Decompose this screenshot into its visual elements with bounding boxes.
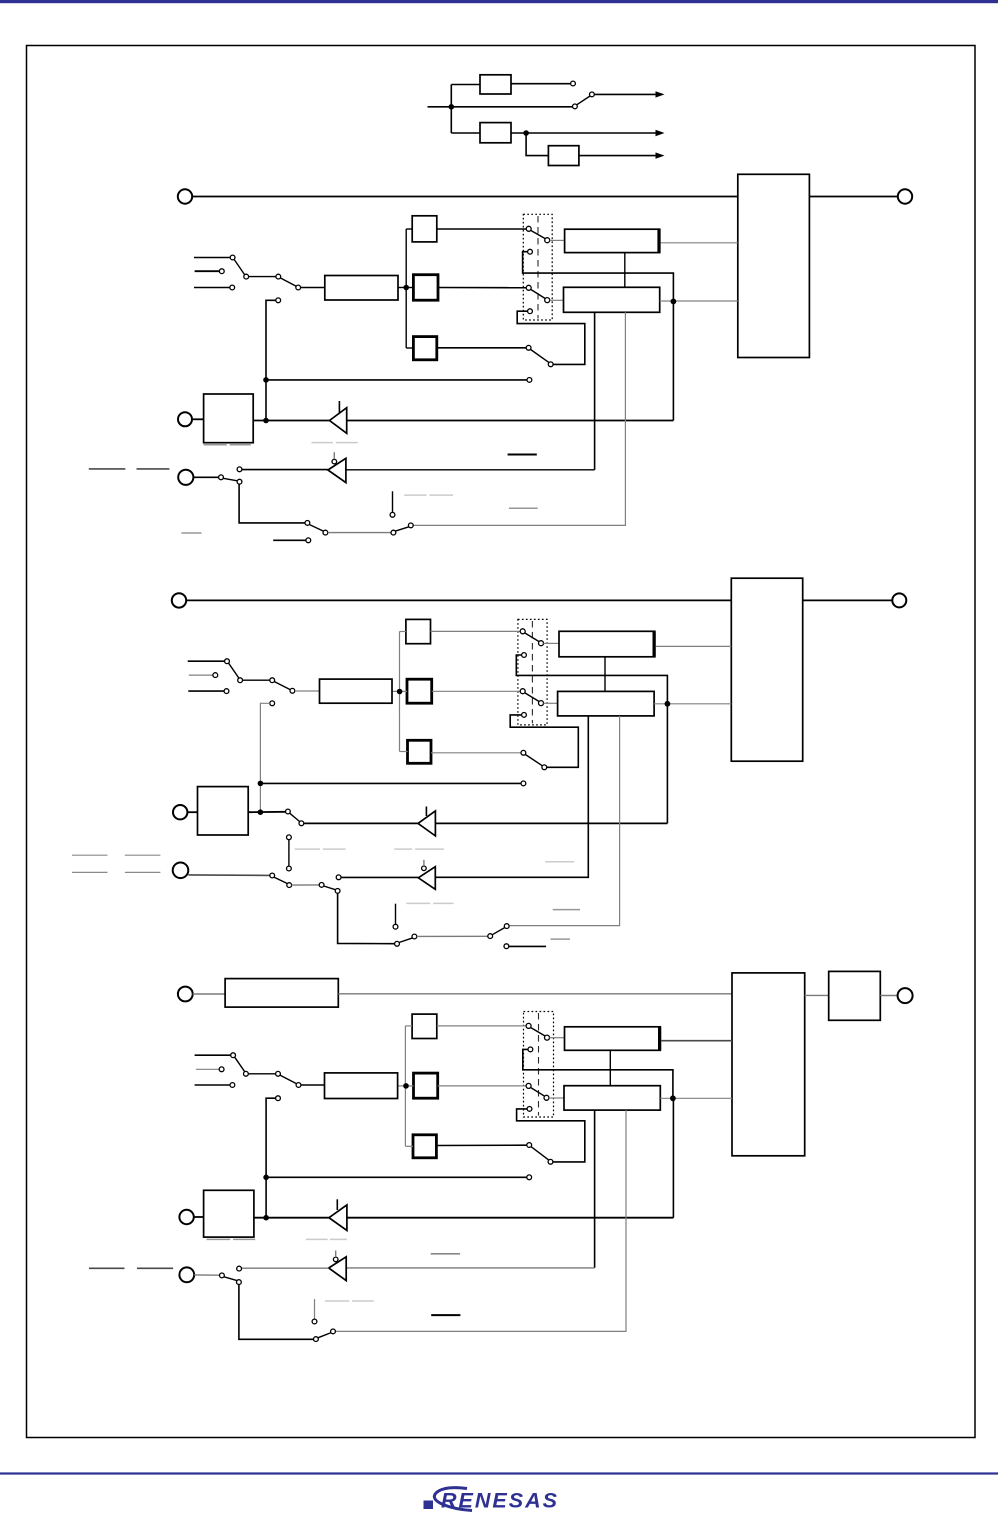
- label dash light: [406, 902, 430, 904]
- wire: throw drop to analog row: [239, 1285, 314, 1340]
- wire: [243, 679, 270, 681]
- wire: box B bottom to input buffer row: [594, 312, 596, 470]
- switch arm: [224, 1277, 237, 1281]
- junction dot: [523, 130, 529, 136]
- box: series resistor: [225, 979, 338, 1008]
- wire: throw drop to analog row: [239, 484, 305, 523]
- wire: R2 to selector: [438, 1085, 527, 1087]
- switch circle: [391, 530, 396, 535]
- wire: open contact row: [266, 1176, 527, 1178]
- switch arm: [525, 755, 542, 766]
- wire: box A bottom feed: [609, 1050, 611, 1085]
- header blue bar: [0, 0, 998, 3]
- label dash group left r2: [72, 871, 108, 873]
- wire: R3 to switch: [431, 752, 521, 754]
- port pad circle P2: [173, 805, 187, 819]
- wire: select stub 3: [188, 690, 224, 692]
- enable stub: [338, 401, 340, 413]
- wire: pad to latch: [194, 1216, 204, 1218]
- wire: low throw Z-link: [517, 311, 585, 364]
- wire: vertical link: [288, 840, 290, 866]
- box: pull-up R1: [412, 216, 437, 242]
- big box: port logic: [732, 973, 805, 1156]
- switch circle (stub end): [306, 538, 311, 543]
- wire: vertical distribution: [450, 85, 452, 134]
- label dash light: [352, 1300, 374, 1302]
- junction dot: [263, 1215, 269, 1221]
- junction dot: [263, 1175, 269, 1181]
- port pad circle right: [898, 189, 912, 203]
- svg-text:RENESAS: RENESAS: [441, 1489, 559, 1513]
- wire: throw L-link: [523, 1049, 673, 1098]
- switch circle (pole): [520, 689, 525, 694]
- wire: stub to R1: [406, 228, 412, 230]
- wire: box A output: [661, 1040, 732, 1042]
- wire: column connector: [405, 229, 407, 348]
- wire: long box output: [398, 1085, 414, 1087]
- wire: middle branch: [451, 106, 572, 108]
- wire: R1 to selector: [431, 630, 521, 632]
- dashed divider: [531, 621, 533, 723]
- label dash dark: [137, 1267, 173, 1269]
- switch arm: [531, 1088, 545, 1097]
- box: port latch: [204, 394, 254, 443]
- switch arm: [234, 260, 244, 275]
- switch circle: [270, 678, 275, 683]
- switch circle (pole): [526, 226, 531, 231]
- wire: R1 to selector: [437, 1025, 526, 1027]
- switch circle: [395, 941, 400, 946]
- inverter bubble: [333, 1257, 338, 1262]
- long box: function selector: [325, 276, 398, 301]
- wire: R3 to switch: [436, 1144, 526, 1146]
- box A thick right border: [658, 1027, 661, 1051]
- box T3: [548, 146, 579, 166]
- label dash: [125, 854, 160, 856]
- wire: throw L-link: [523, 252, 674, 302]
- label dash group left r1: [72, 854, 108, 856]
- dotted selector box: [524, 1012, 554, 1118]
- junction dot: [397, 689, 403, 695]
- wire: box B output: [660, 300, 738, 302]
- switch circle: [331, 1329, 336, 1334]
- switch arm: [531, 1028, 545, 1036]
- label dash light: [323, 848, 346, 850]
- arrowhead 2: [656, 130, 665, 136]
- box: register R3: [413, 1135, 436, 1158]
- switch circle: [276, 1071, 281, 1076]
- wire: branch to T3: [526, 133, 548, 156]
- wire: pin line: [253, 420, 673, 422]
- wire: stub to R1: [400, 631, 406, 633]
- wire: box A bottom feed: [624, 253, 626, 288]
- wire: port line: [338, 993, 732, 995]
- label dash: [125, 871, 160, 873]
- footer blue rule: [0, 1472, 998, 1474]
- switch circle (pole): [526, 1083, 531, 1088]
- wire: T2 output: [511, 132, 658, 134]
- junction dot: [258, 781, 264, 787]
- switch circle: [230, 1083, 235, 1088]
- switch circle (stub end): [393, 924, 398, 929]
- label dash: [509, 507, 538, 509]
- switch circle (stub end): [504, 944, 509, 949]
- box: pull-up R1: [406, 619, 431, 643]
- switch circle: [238, 678, 243, 683]
- wire: pin line: [254, 1217, 674, 1219]
- wire: pivot to box B: [544, 702, 558, 704]
- wire: buffer output to open contact: [242, 1267, 329, 1269]
- wire: drop to analog row: [338, 893, 395, 943]
- label dash: [233, 1238, 255, 1240]
- switch contact circle (T1 throw): [571, 81, 576, 86]
- wire: select stub 1: [195, 1054, 231, 1056]
- port pad circle P3: [179, 1267, 194, 1282]
- box A thick right border: [657, 229, 660, 252]
- switch arm: [290, 813, 300, 821]
- switch pivot circle: [545, 238, 550, 243]
- wire: lower branch: [451, 132, 480, 134]
- label dash: [230, 444, 251, 446]
- wire: T3 output: [579, 155, 658, 157]
- wire: pad to latch: [192, 418, 204, 420]
- switch circle: [319, 883, 324, 888]
- switch circle: [305, 521, 310, 526]
- switch circle (throw 2): [522, 653, 527, 658]
- long box: function selector: [320, 679, 393, 703]
- wire: pad to series resistor: [193, 993, 225, 995]
- label dash under latch: [204, 444, 227, 446]
- wire: [292, 884, 320, 886]
- wire: vertical stub: [395, 904, 397, 925]
- switch circle (stub end): [312, 1319, 317, 1324]
- label dash under latch: [207, 1238, 231, 1240]
- junction dot: [263, 377, 269, 383]
- wire: column connector: [404, 1026, 406, 1146]
- wire: box B bottom gray drop: [413, 312, 625, 525]
- label dash: [137, 468, 170, 470]
- wire: port line: [186, 599, 731, 601]
- switch circle: [244, 274, 249, 279]
- wire: filter to pad: [880, 995, 897, 997]
- switch circle: [231, 1053, 236, 1058]
- switch pivot circle: [539, 641, 544, 646]
- switch arm: [395, 527, 409, 531]
- wire: T1 output: [511, 83, 570, 85]
- switch arm: [235, 1057, 245, 1072]
- port pad circle P1: [178, 189, 192, 203]
- port pad circle P1: [172, 593, 186, 607]
- switch pivot circle: [545, 1035, 550, 1040]
- dotted selector box: [518, 619, 547, 725]
- switch circle: [296, 285, 301, 290]
- switch arm: [223, 478, 237, 481]
- switch circle: [488, 934, 493, 939]
- Renesas logo mark: [424, 1501, 434, 1510]
- Renesas logo: [424, 1488, 559, 1513]
- box: output filter: [829, 971, 881, 1020]
- wire: box A output: [661, 242, 738, 244]
- big box: port logic: [738, 174, 810, 357]
- label dash group left: [89, 468, 126, 470]
- wire: pad stub: [193, 476, 218, 478]
- switch circle (throw): [548, 362, 553, 367]
- box T2: [480, 123, 511, 143]
- wire: long box output: [398, 287, 413, 289]
- arrowhead 3: [656, 152, 665, 158]
- switch circle: [244, 1071, 249, 1076]
- wire: stub to R3: [406, 347, 413, 349]
- switch circle (open contact): [527, 378, 532, 383]
- wire: select stub 1: [194, 257, 230, 259]
- wire: pin line riser: [666, 704, 668, 823]
- junction dot: [665, 701, 671, 707]
- box B: output register: [564, 287, 660, 312]
- switch circle (pole): [526, 1023, 531, 1028]
- switch circle (throw 2 low): [527, 1107, 532, 1112]
- wire: select stub 1: [188, 660, 225, 662]
- wire: buffer output to open contact: [242, 469, 328, 471]
- port pad circle right: [898, 988, 913, 1003]
- wire: box B bottom to input buffer row: [435, 716, 588, 877]
- wire: big box to right pad: [809, 196, 897, 198]
- switch circle (pole): [220, 1273, 225, 1278]
- wire: pivot to box A: [550, 239, 565, 241]
- switch circle (mode tap): [270, 701, 275, 706]
- switch arm: [229, 663, 239, 678]
- port pad circle P1: [178, 987, 193, 1002]
- wire: open contact row: [266, 379, 527, 381]
- switch circle: [323, 530, 328, 535]
- wire: buffer output to open contact: [341, 876, 418, 878]
- switch arm: [577, 96, 590, 105]
- switch pivot circle: [590, 92, 595, 97]
- box: register R2: [407, 679, 432, 703]
- switch circle (vertical link bottom): [287, 866, 292, 871]
- switch circle (throw): [542, 765, 547, 770]
- box: register R2: [413, 275, 438, 301]
- switch circle (pole): [521, 750, 526, 755]
- wire: stub to R1: [405, 1025, 412, 1027]
- switch circle: [219, 1067, 224, 1072]
- junction dot: [263, 418, 269, 424]
- wire: big box to right pad: [803, 599, 893, 601]
- box: pull-up R1: [412, 1014, 437, 1038]
- label dash light: [430, 494, 454, 496]
- label dash light: [336, 442, 358, 444]
- port pad circle P2: [178, 412, 192, 426]
- wire: [248, 1073, 275, 1075]
- switch circle (throw 2): [528, 249, 533, 254]
- switch circle (open contact): [237, 467, 242, 472]
- wire: latch output: [248, 811, 285, 813]
- switch circle: [219, 269, 224, 274]
- wire: box A bottom feed: [604, 657, 606, 692]
- switch arm: [531, 350, 549, 363]
- wire: to long box: [295, 690, 320, 692]
- wire: to long box: [301, 1084, 325, 1086]
- label dash light: [404, 494, 426, 496]
- dotted selector box: [523, 214, 552, 320]
- switch circle: [276, 274, 281, 279]
- box: register R3: [413, 337, 436, 360]
- switch contact circle (pole): [573, 104, 578, 109]
- wire: open contact row: [260, 782, 521, 784]
- box: port latch: [204, 1190, 254, 1237]
- label dash dark: [89, 1267, 125, 1269]
- port pad circle P3: [178, 470, 193, 485]
- label dash light: [325, 1300, 349, 1302]
- Renesas logo swoosh: [434, 1488, 472, 1511]
- switch circle (open contact): [237, 1266, 242, 1271]
- switch circle (pole): [527, 1143, 532, 1148]
- wire: pivot to box A: [544, 642, 560, 644]
- dashed divider: [538, 1013, 540, 1116]
- wire: vertical stub: [314, 1299, 316, 1319]
- wire: spare stub: [509, 945, 546, 947]
- wire: pad stub: [188, 874, 269, 877]
- wire: pad stub: [194, 1274, 219, 1276]
- input buffer triangle U1: [329, 1205, 347, 1231]
- switch circle (open contact): [521, 781, 526, 786]
- wire: box B bottom to input buffer row: [594, 1110, 596, 1268]
- switch pivot circle: [545, 298, 550, 303]
- switch arm: [281, 278, 297, 286]
- switch arm: [525, 633, 539, 642]
- enable stub: [335, 1251, 337, 1258]
- switch circle (throw 2 low): [522, 713, 527, 718]
- switch circle (throw): [237, 479, 242, 484]
- enable stub: [425, 807, 427, 817]
- wire: low throw Z-link: [510, 715, 578, 767]
- box: register R3: [408, 740, 432, 763]
- wire: low throw Z-link: [517, 1109, 585, 1162]
- wire: big box to filter: [805, 994, 829, 996]
- label dash light: [295, 848, 320, 850]
- switch circle (pole): [526, 345, 531, 350]
- label dash light: [394, 848, 412, 850]
- input buffer triangle U2: [329, 1257, 347, 1281]
- port pad circle P2: [179, 1210, 193, 1224]
- wire: select stub 2: [196, 1068, 219, 1070]
- wire: select stub 3: [195, 1084, 230, 1086]
- input buffer triangle U2: [328, 458, 346, 482]
- switch circle (vertical link top): [287, 835, 292, 840]
- label bar black: [431, 1314, 460, 1316]
- label dash light: [433, 902, 454, 904]
- enable stub: [336, 1199, 338, 1210]
- wire: R1 to selector: [437, 228, 527, 230]
- switch arm: [399, 938, 413, 943]
- switch circle: [213, 673, 218, 678]
- label dash: [553, 909, 580, 911]
- label dash light: [306, 1238, 328, 1240]
- label dash: [551, 938, 571, 940]
- wire: column connector: [399, 632, 401, 752]
- wire: select stub 2: [195, 270, 220, 272]
- wire: to buffer: [304, 822, 418, 824]
- wire: select stub 3: [194, 287, 230, 289]
- switch circle (throw 2): [528, 1047, 533, 1052]
- switch circle (throw 2 low): [528, 309, 533, 314]
- wire: L from mode tap: [266, 300, 276, 420]
- box: port latch: [198, 787, 249, 835]
- wire: pin line riser: [672, 1098, 674, 1217]
- port pad circle P3: [173, 863, 189, 879]
- wire: pivot to box B: [550, 299, 564, 301]
- switch circle: [296, 1083, 301, 1088]
- switch circle (pole): [526, 285, 531, 290]
- switch circle: [504, 924, 509, 929]
- label dash: [181, 532, 201, 534]
- wire: L from mode tap: [260, 703, 269, 812]
- switch circle (pole): [520, 629, 525, 634]
- box A thick right border: [652, 631, 655, 657]
- wire: pivot to box B: [549, 1097, 564, 1099]
- switch circle (pole): [286, 809, 291, 814]
- wire: input stub to junction: [428, 106, 452, 108]
- switch arm: [309, 525, 323, 532]
- wire: [249, 276, 276, 278]
- box A: data bus register: [565, 1027, 661, 1051]
- wire: stub to R3: [400, 751, 408, 753]
- enable stub: [423, 860, 425, 866]
- switch circle: [290, 688, 295, 693]
- wire: [417, 935, 488, 937]
- switch circle (open contact): [336, 875, 341, 880]
- inverter bubble: [422, 866, 427, 871]
- junction dot: [671, 299, 677, 305]
- junction dot: [670, 1095, 676, 1101]
- wire: vertical stub: [392, 491, 394, 512]
- label dash light: [415, 848, 444, 850]
- wire: box B bottom gray drop: [509, 716, 619, 926]
- junction dot: [258, 809, 264, 815]
- wire: [328, 532, 391, 534]
- enable stub: [333, 452, 335, 459]
- switch circle (pole): [270, 873, 275, 878]
- switch circle: [408, 523, 413, 528]
- box B: output register: [558, 691, 655, 716]
- box T1: [480, 75, 511, 94]
- switch arm: [531, 231, 545, 239]
- switch circle (mode tap): [276, 1096, 281, 1101]
- switch circle: [230, 285, 235, 290]
- switch circle: [230, 255, 235, 260]
- inverter bubble: [332, 459, 337, 464]
- switch circle (throw): [548, 1159, 553, 1164]
- wire: R2 to selector: [438, 287, 526, 289]
- wire: L from mode tap: [266, 1098, 276, 1218]
- switch circle: [224, 689, 229, 694]
- wire: to long box: [301, 287, 325, 289]
- label bar black: [508, 454, 537, 456]
- dashed divider: [537, 216, 539, 319]
- label dash light: [312, 442, 334, 444]
- switch circle (mode tap): [276, 298, 281, 303]
- switch circle (pole): [219, 475, 224, 480]
- switch circle: [412, 934, 417, 939]
- input buffer triangle U2: [418, 867, 435, 890]
- wire: pad to latch: [187, 811, 197, 813]
- wire: box B output: [660, 1097, 732, 1099]
- switch circle: [335, 889, 340, 894]
- wire: pivot to box A: [550, 1037, 565, 1039]
- label dash: [431, 1253, 460, 1255]
- arrowhead 1: [656, 91, 665, 97]
- input buffer triangle U1: [418, 811, 435, 836]
- wire: select stub 2: [189, 674, 213, 676]
